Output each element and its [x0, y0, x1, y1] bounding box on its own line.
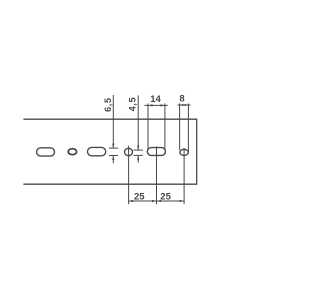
- svg-text:25: 25: [134, 192, 145, 203]
- svg-text:8: 8: [179, 94, 184, 105]
- svg-text:25: 25: [160, 192, 171, 203]
- svg-text:6,5: 6,5: [103, 97, 113, 112]
- svg-text:14: 14: [150, 94, 161, 105]
- svg-text:4,5: 4,5: [128, 97, 138, 112]
